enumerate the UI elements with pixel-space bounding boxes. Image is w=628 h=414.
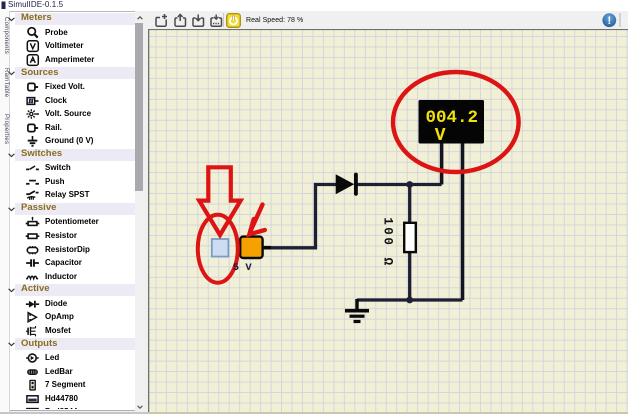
app icon <box>1 1 7 10</box>
ground symbol <box>345 299 369 322</box>
voltage source body (orange) <box>263 246 272 250</box>
list item ResistorDip <box>25 243 40 257</box>
red annotation: big hollow arrow pointing down <box>199 167 240 235</box>
voltmeter left pin <box>440 143 444 185</box>
diode D1 <box>336 174 355 194</box>
svg-text:100 Ω: 100 Ω <box>381 217 395 268</box>
canvas bottom edge <box>148 412 628 414</box>
toolbar icon: save circuit as <box>209 13 224 28</box>
list item Potentiometer <box>25 215 40 229</box>
left vertical tab strip <box>0 11 10 414</box>
category header Meters <box>15 13 135 25</box>
red annotation: ellipse around blue button <box>198 215 238 283</box>
toolbar right separator <box>619 13 621 27</box>
wire from source to corner and up to diode <box>263 185 337 248</box>
resistor R1 body <box>404 223 416 252</box>
category header Passive <box>15 203 135 215</box>
canvas left border <box>148 29 149 414</box>
junction dot bottom <box>406 297 413 304</box>
list item Pcd8544 <box>25 405 40 414</box>
list item Hd44780 <box>25 392 40 406</box>
list item Probe <box>25 26 40 40</box>
list item Relay SPST <box>25 188 40 202</box>
red annotation: small arrow at orange button <box>249 205 264 235</box>
list item Capacitor <box>25 256 40 270</box>
list item Mosfet <box>25 324 40 338</box>
list item LedBar <box>25 365 40 379</box>
list item Fixed Volt. <box>25 80 40 94</box>
component list panel <box>10 11 135 411</box>
red annotation: ellipse around voltmeter <box>393 72 519 172</box>
list item Led <box>25 351 40 365</box>
svg-text:5 V: 5 V <box>233 262 253 274</box>
toolbar icon: open circuit <box>173 13 188 28</box>
voltage source button (blue) <box>212 239 229 257</box>
list scrollbar <box>135 11 143 410</box>
power button <box>226 13 241 28</box>
list item Inductor <box>25 270 40 284</box>
toolbar icon: new circuit <box>154 13 169 28</box>
category header Sources <box>15 67 135 79</box>
list item Diode <box>25 297 40 311</box>
list item Rail. <box>25 121 40 135</box>
list item Clock <box>25 94 40 108</box>
list item 7 Segment <box>25 378 40 392</box>
category header Outputs <box>15 338 135 350</box>
category header Switches <box>15 149 135 161</box>
svg-text:V: V <box>435 126 446 146</box>
canvas background grid <box>148 29 628 414</box>
category header Active <box>15 284 135 296</box>
list item OpAmp <box>25 310 40 324</box>
resistor branch vertical wire <box>408 185 411 301</box>
toolbar <box>0 11 628 29</box>
real speed text <box>246 17 303 24</box>
wire diode cathode to voltmeter left pin corner <box>355 183 442 186</box>
svg-text:!: ! <box>607 15 611 27</box>
list item Resistor <box>25 229 40 243</box>
title bar <box>0 0 628 11</box>
list item Volt. Source <box>25 107 40 121</box>
svg-text:004.2: 004.2 <box>426 108 479 128</box>
list item Voltimeter <box>25 39 40 53</box>
toolbar icon: save circuit <box>191 13 206 28</box>
list item Ground (0 V) <box>25 134 40 148</box>
list item Amperimeter <box>25 53 40 67</box>
title text <box>8 0 63 9</box>
junction dot top <box>406 181 413 188</box>
bottom wire ground to right pin <box>357 298 463 301</box>
canvas top border <box>148 29 628 30</box>
voltmeter right pin wire <box>461 143 465 300</box>
list item Switch <box>25 161 40 175</box>
list item Push <box>25 175 40 189</box>
info icon <box>601 12 618 29</box>
voltmeter display box <box>419 100 485 144</box>
toolbar separator <box>223 13 224 27</box>
window bottom edge <box>0 412 148 414</box>
